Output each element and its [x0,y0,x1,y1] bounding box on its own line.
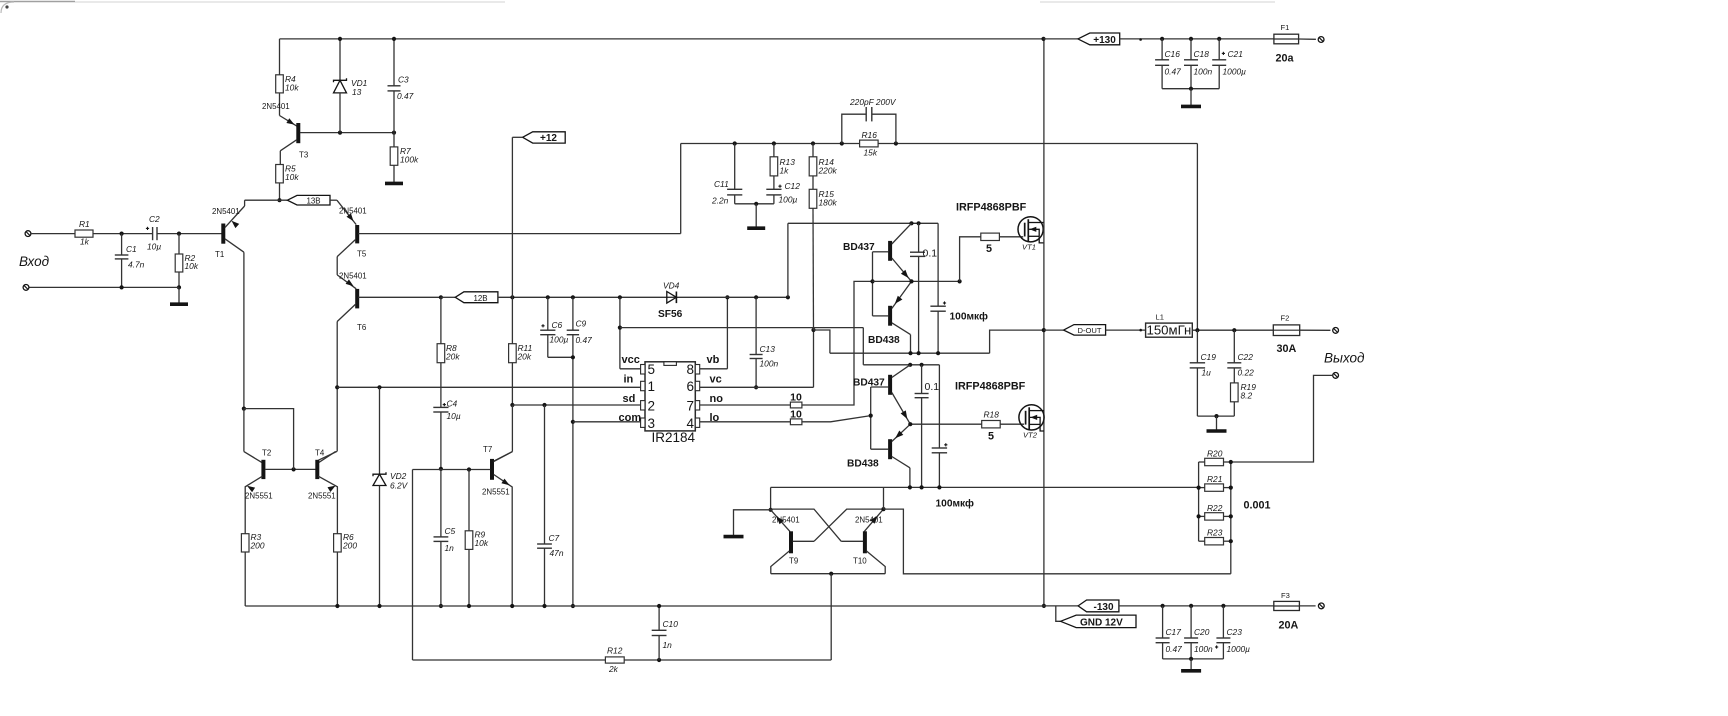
pin 6 vc [695,381,699,390]
transistor T5 [355,225,359,243]
svg-text:R16: R16 [862,130,878,140]
wire lower base rail [870,387,872,449]
svg-text:IRFP4868PBF: IRFP4868PBF [956,202,1027,214]
wire vcc line [620,327,863,329]
pin 7 no [695,401,699,410]
capacitor 0.1 upper [918,223,920,252]
capacitor C12 [773,176,775,189]
svg-text:0.47: 0.47 [397,91,414,101]
node T1 collector tap [242,407,246,411]
node upper base [870,279,874,283]
svg-text:R20: R20 [1207,448,1223,458]
node input-R1-C1 [120,232,124,236]
capacitor C22 [1233,330,1235,363]
node R14 [811,141,815,145]
node C17 [1161,604,1165,608]
wire rail corner to T9 node [770,487,772,509]
svg-text:C23: C23 [1227,627,1243,637]
svg-text:C10: C10 [663,619,679,629]
transistor BD437 lower [888,375,892,395]
svg-text:20k: 20k [445,351,460,361]
wire T9 base cross to T10 emitter [814,509,884,541]
wire F2 to terminal [1300,329,1331,331]
node C5 bottom [439,604,443,608]
node 220p right [894,141,898,145]
svg-text:2N5401: 2N5401 [262,102,290,111]
node shunt right R22 [1229,514,1233,518]
wire T6 base row [358,296,441,298]
zener VD1 [339,39,341,80]
capacitor C10 [658,606,660,630]
node C7 bus [542,604,546,608]
wire BD438L collector drop [909,468,911,488]
terminal output- [1333,373,1339,379]
wire gate VT2 [1000,423,1024,425]
node C2-R2-T1 [177,232,181,236]
node T2 T4 base [292,467,296,471]
wire BD438 collector to line A [910,335,912,354]
svg-text:sd: sd [623,393,636,405]
node lower base [869,414,873,418]
svg-text:1n: 1n [663,640,673,650]
svg-text:1: 1 [648,379,656,394]
svg-text:4: 4 [687,416,695,431]
node C20 [1189,604,1193,608]
node gate turn [958,279,962,283]
capacitor C1 [121,234,123,255]
wire gate VT1 [999,236,1023,238]
svg-text:6: 6 [687,379,695,394]
resistor R14 [812,144,814,157]
page top border [0,1,75,3]
svg-text:in: in [624,374,634,386]
svg-text:10k: 10k [475,538,489,548]
ground under C11 [755,204,757,227]
node R13 [772,141,776,145]
wire no to upper pair [802,281,873,405]
svg-text:30A: 30A [1277,343,1297,355]
diode VD4 SF56 [667,296,788,298]
resistor R20 [1205,458,1224,465]
node VD2 top [377,385,381,389]
svg-text:C1: C1 [126,244,137,254]
fuse F3 [1274,605,1300,607]
svg-text:13B: 13B [306,197,320,206]
capacitor C9 [572,297,574,330]
transistor T10 [864,509,883,531]
node D-OUT [1042,328,1046,332]
ground under R2 [178,287,180,303]
node R12 tap [829,572,833,576]
svg-text:7: 7 [687,399,695,414]
svg-text:2N5401: 2N5401 [212,207,240,216]
wire +130 rail [1120,38,1274,40]
wire -130 caps join [1163,658,1224,660]
wire com row [573,421,641,423]
svg-text:+130: +130 [1093,35,1116,46]
resistor R9 [468,470,470,531]
node BD437L collector [908,363,912,367]
wire lower emitter row [910,423,981,425]
svg-text:2k: 2k [608,664,619,674]
svg-text:C19: C19 [1201,352,1217,362]
svg-text:VD2: VD2 [390,471,407,481]
wire input bottom [29,286,179,288]
ground +130 caps [1190,89,1192,106]
svg-text:VD4: VD4 [663,281,680,291]
svg-text:R22: R22 [1207,503,1223,513]
node R6 bus [335,604,339,608]
capacitor C7 [544,405,546,544]
svg-text:100n: 100n [1194,66,1213,76]
input terminal top [25,231,31,237]
node C23 [1221,604,1225,608]
node +12 drop [510,295,514,299]
transistor VT1 MOSFET [1018,217,1043,242]
svg-text:T9: T9 [789,557,799,566]
svg-text:0.22: 0.22 [1238,368,1255,378]
zener VD2 [379,387,381,474]
svg-text:20A: 20A [1279,620,1299,632]
svg-text:180k: 180k [819,197,838,207]
node C6 top [546,295,550,299]
svg-text:10k: 10k [285,82,299,92]
node C13-vc [754,385,758,389]
svg-text:C9: C9 [576,319,587,329]
svg-text:4.7n: 4.7n [128,260,145,270]
svg-text:vb: vb [707,354,720,366]
svg-text:20a: 20a [1276,53,1295,65]
svg-text:100µ: 100µ [550,335,569,345]
flag +12 [523,132,566,143]
wire in row [337,386,640,388]
svg-text:BD437: BD437 [853,377,885,388]
terminal +130 [1318,37,1324,43]
svg-text:IR2184: IR2184 [652,430,696,445]
wire [93,233,152,235]
inductor L1 [1146,323,1193,337]
capacitor C6 [547,297,549,330]
node C9 top [571,295,575,299]
wire no row [700,404,791,406]
node 100u bottom [936,351,940,355]
node VD1 bottom [338,131,342,135]
svg-text:vc: vc [710,374,722,386]
svg-text:C5: C5 [445,526,456,536]
svg-text:T10: T10 [853,557,867,566]
terminal output+ [1333,328,1339,334]
ground stub T9 [734,510,771,536]
pin 3 com [641,418,645,427]
node C22 [1232,328,1236,332]
resistor R19 [1231,383,1239,402]
node shunt left R22 [1197,514,1201,518]
transistor T6 [337,275,356,289]
svg-text:0.47: 0.47 [576,335,593,345]
svg-text:2N5401: 2N5401 [855,516,883,525]
svg-text:0.47: 0.47 [1166,644,1183,654]
wire vc row [700,386,814,388]
svg-text:R12: R12 [607,646,623,656]
svg-text:2N5551: 2N5551 [482,488,510,497]
wire R12 row [413,659,606,661]
svg-text:6.2V: 6.2V [390,481,409,491]
wire upper emitter row [873,280,960,282]
node 0.1u bottom [917,351,921,355]
svg-text:100k: 100k [400,154,419,164]
wire to L1 [1106,329,1146,331]
svg-text:GND 12V: GND 12V [1080,618,1123,629]
node C3-R7 [392,131,396,135]
wire lo row [700,421,791,423]
node T7 emitter bus [510,604,514,608]
node vb-pair corner [786,295,790,299]
capacitor 100uF upper bootstrap [937,223,939,306]
svg-text:BD437: BD437 [843,242,875,253]
svg-text:F3: F3 [1281,591,1290,600]
wire T10 emitter up to rail [883,487,885,509]
resistor R22 [1205,513,1224,520]
capacitor C2 [152,227,154,240]
wire 12B rail [498,296,667,298]
svg-text:5: 5 [648,362,656,377]
svg-text:2N5401: 2N5401 [339,272,367,281]
wire shunt left rail [1198,462,1200,541]
svg-text:D-OUT: D-OUT [1077,326,1101,335]
svg-text:47n: 47n [550,548,564,558]
wire feedback line [681,143,1198,145]
svg-text:C22: C22 [1238,352,1254,362]
capacitor C18 [1190,39,1192,60]
wire T1 collector down [243,252,245,408]
svg-text:Выход: Выход [1324,351,1365,366]
wire C4 to T7 base row [440,412,442,469]
svg-text:C2: C2 [149,214,160,224]
wire T5-T6 [336,257,338,275]
wire vcc stub [619,297,621,369]
resistor R2 [178,234,180,254]
node VD1 top [338,37,342,41]
svg-text:10µ: 10µ [147,241,161,251]
svg-text:0.1: 0.1 [923,248,938,260]
flag 13B [287,195,330,205]
resistor R3 [241,534,249,552]
svg-text:100µ: 100µ [779,195,798,205]
svg-text:2N5401: 2N5401 [339,207,367,216]
svg-text:0.47: 0.47 [1165,66,1182,76]
svg-text:no: no [710,393,724,405]
wire vb to pair top [787,223,789,297]
wire vb stub [700,368,728,370]
node vb rail [725,295,729,299]
transistor T1 [221,224,225,244]
node 0.1 top [917,221,921,225]
svg-text:F2: F2 [1281,314,1290,323]
svg-text:C21: C21 [1228,49,1243,59]
capacitor 100uF lower [938,365,940,448]
node C9 bus [571,604,575,608]
svg-text:8: 8 [687,362,695,377]
resistor R8 [440,297,442,343]
svg-text:200: 200 [250,540,265,550]
capacitor C21 [1218,39,1220,60]
svg-text:100n: 100n [1194,644,1213,654]
resistor 10 (no) [790,402,802,408]
resistor R6 [334,534,342,552]
svg-text:C17: C17 [1166,627,1182,637]
svg-text:C6: C6 [552,320,563,330]
wire zobel join [1197,415,1234,417]
wire output- to shunt [1231,375,1333,462]
terminal -130 [1318,603,1324,609]
node +130 top [1041,37,1045,41]
resistor 5 (VT1 gate) [981,233,1000,240]
capacitor C23 [1222,606,1224,638]
wire +12 vertical [512,136,522,138]
svg-text:T4: T4 [315,448,325,457]
fuse F1 [1274,38,1299,40]
node gnd stem C11-C12 [754,202,758,206]
svg-text:BD438: BD438 [868,335,900,346]
transistor BD438 upper [888,306,892,326]
wire line A (VS rail) [830,352,990,354]
node C16 [1160,37,1164,41]
pin 2 sd [641,401,645,410]
wire R6 to bus [336,552,338,606]
svg-text:T1: T1 [215,250,224,259]
node vs jog [811,328,815,332]
node C13 top [754,295,758,299]
svg-text:1000µ: 1000µ [1223,66,1247,76]
node vcc stub [618,295,622,299]
svg-text:15k: 15k [864,147,878,157]
node shunt right R20 [1229,460,1233,464]
wire output row [1192,329,1273,331]
node 12B-R8 [439,295,443,299]
resistor R23 [1205,538,1224,545]
transistor T4 [318,451,335,462]
flag GND 12V [1056,606,1061,621]
svg-text:T6: T6 [357,323,367,332]
node 220p left [840,141,844,145]
svg-text:220pF 200V: 220pF 200V [849,97,897,107]
node lower emitters [908,422,912,426]
svg-text:C3: C3 [398,75,409,85]
node T7 base R9 [467,467,471,471]
ground zobel [1216,416,1218,430]
svg-text:C12: C12 [785,181,801,191]
wire T5 base to fb line [680,144,682,234]
resistor R18 5 [982,421,1001,428]
transistor T3 [279,93,281,116]
node Q collector top [909,221,913,225]
wire T9 T10 bottom [771,573,885,575]
svg-text:100n: 100n [760,358,779,368]
node C4-T7base [439,467,443,471]
svg-text:3: 3 [648,416,656,431]
svg-text:T7: T7 [483,445,492,454]
svg-text:10k: 10k [285,172,299,182]
transistor BD437 upper [888,241,892,261]
node T10 emitter [881,507,885,511]
svg-text:R18: R18 [984,410,1000,420]
wire R12 riser [830,574,832,660]
wire drain rail [1043,39,1045,606]
svg-text:1n: 1n [445,543,455,553]
capacitor 220pF 200V [842,114,866,143]
pin 1 in [641,381,645,390]
svg-text:T5: T5 [357,250,367,259]
svg-text:SF56: SF56 [658,309,683,320]
node C18 [1189,37,1193,41]
flag -130 [1044,605,1078,607]
svg-text:VT1: VT1 [1022,243,1036,252]
svg-text:+12: +12 [540,133,557,144]
svg-text:T3: T3 [299,151,309,160]
capacitor C5 [440,469,442,537]
capacitor C3 [393,39,395,86]
node VD2 bus [377,604,381,608]
wire T7base riser to R12 row [412,470,414,661]
svg-text:C7: C7 [549,533,560,543]
wire F3 to terminal [1299,605,1315,607]
svg-text:BD438: BD438 [847,459,879,470]
wire R15 to vs [812,208,815,330]
wire upper base rail [872,252,874,316]
node 0.1L bottom [920,485,924,489]
svg-text:12B: 12B [473,294,487,303]
transistor T9 [771,510,790,532]
svg-text:5: 5 [986,243,992,255]
node 100L bottom [937,485,941,489]
svg-text:200: 200 [342,540,357,550]
flag +130 [1044,38,1078,40]
capacitor C17 [1162,606,1164,638]
wire line A to D-OUT [990,330,1044,353]
node C10 bus [657,604,661,608]
resistor R11 [509,344,517,363]
resistor R13 [773,144,775,157]
svg-text:C4: C4 [447,398,458,408]
wire T6 collector down [336,322,338,452]
svg-text:1k: 1k [80,237,90,247]
ground -130 caps [1190,659,1192,670]
node BD438L collector bus [908,485,912,489]
node C10 bottom [657,658,661,662]
transistor T7 [490,459,494,480]
node VT2 source bus [1042,604,1046,608]
node R9 bus [467,604,471,608]
svg-text:L1: L1 [1156,313,1164,322]
svg-text:1k: 1k [780,165,790,175]
svg-text:220k: 220k [818,165,838,175]
svg-text:C20: C20 [1194,627,1210,637]
transistor BD438 lower [888,439,892,459]
svg-text:1u: 1u [1202,368,1212,378]
wire -130 source rail [771,486,1199,488]
wire T10 emitter to shunt [884,509,1231,574]
svg-text:R1: R1 [79,219,90,229]
pin 8 vb [695,365,699,375]
wire 13B row [245,199,288,201]
svg-text:1000µ: 1000µ [1227,644,1251,654]
svg-text:13: 13 [352,87,362,97]
svg-text:0.1: 0.1 [925,381,940,393]
node zobel gnd [1214,414,1218,418]
node input bottom [177,285,181,289]
input terminal bottom [23,285,29,291]
pin 4 lo [695,418,699,427]
